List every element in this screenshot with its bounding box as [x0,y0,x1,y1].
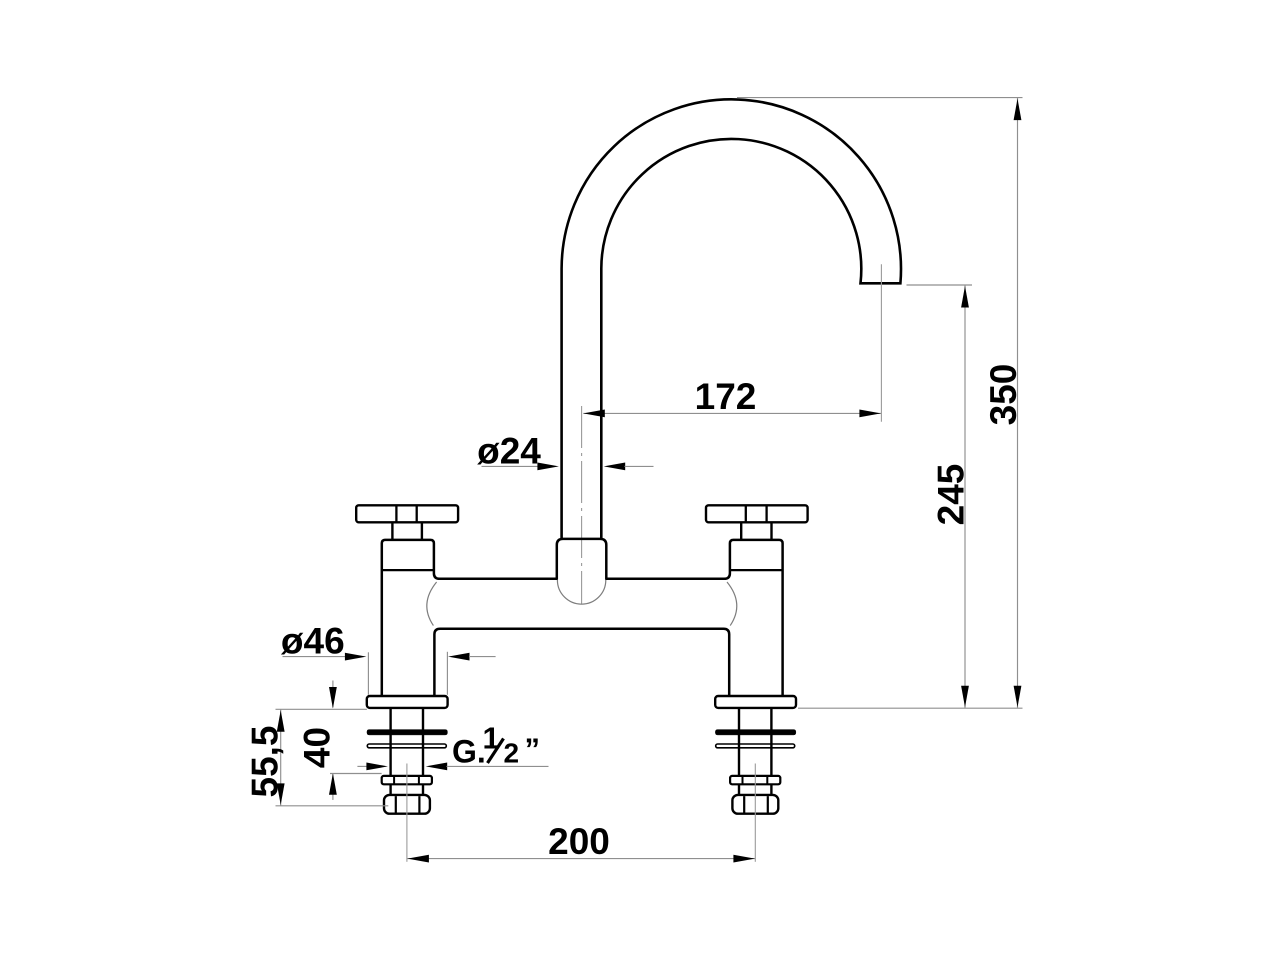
arrow 200 left [407,855,429,863]
arrow 40 top [329,687,337,709]
dimension line 40 lower [332,774,334,800]
right cross handle bar [706,505,808,522]
svg-text:200: 200 [548,821,610,862]
right shank centerline [754,764,756,862]
dimension line 172 [583,412,881,414]
svg-text:350: 350 [983,364,1024,426]
arrow ø46 left [345,653,367,661]
dimension line 245 [964,285,966,708]
left collar facet lines [394,776,419,784]
left valve body [382,540,440,696]
right threaded shank [739,708,771,776]
extension line spout top [737,97,1023,99]
right seal washer (solid) [715,730,795,735]
arrow G.1/2 right [426,763,448,771]
svg-text:ø46: ø46 [281,621,345,662]
arrow G.1/2 left [366,763,388,771]
arrow 350 bottom [1014,686,1022,708]
body tube top-right line [606,578,725,581]
left hex nut facet lines [396,796,420,812]
right lower shank [739,784,771,795]
svg-text:40: 40 [297,727,338,768]
spout gooseneck tube [562,99,901,540]
arrow 245 bottom [961,686,969,708]
arrow 172 left [583,410,605,418]
ø24 leader line [482,465,539,467]
left base flange [367,696,448,708]
right hex nut facet lines [744,796,768,812]
right valve tube fillet arc [727,582,737,626]
left thin washer [367,744,446,748]
right lock collar [730,776,780,784]
dimension line 200 [407,858,755,860]
left threaded shank [391,708,423,776]
dimension line 350 [1017,98,1019,709]
right valve bonnet joint line [730,569,783,571]
G.1/2 right tail line [447,765,549,767]
svg-text:G.: G. [452,734,486,770]
right base flange [715,696,796,708]
55,5 extension line top [276,708,367,710]
G.1/2 leader line [357,765,367,767]
arrow 172 right [859,410,881,418]
arrow ø24 right [604,463,626,471]
spout outlet centerline [880,264,882,422]
body tube bottom line [434,629,729,696]
arrow ø24 left [537,463,559,471]
ø24 right tail line [625,465,654,467]
left cross handle bar [356,505,458,522]
left handle hub lines [396,505,416,522]
arrow 350 top [1014,99,1022,121]
spout pipe centerline (dash-dot) [581,406,583,604]
body tube top-left line [439,578,558,581]
40 extension line bottom [330,773,382,775]
left seal washer (solid) [367,730,447,735]
left valve bonnet joint line [382,569,434,571]
svg-text:2: 2 [504,738,520,769]
ø46 extension line right [446,652,448,695]
arrow 245 top [961,286,969,308]
arrow 40 bottom [329,773,337,795]
svg-text:55,5: 55,5 [244,725,285,797]
dimension line 40 upper [332,681,334,708]
right handle stem [741,522,771,540]
ø46 extension line left [367,652,369,695]
left handle stem [392,522,422,540]
left hex nut [384,795,430,814]
left valve tube fillet arc [427,582,437,626]
svg-text:245: 245 [931,464,972,526]
arrow 200 right [733,855,755,863]
extension line flange bottom right [798,707,1023,709]
right handle hub lines [746,505,767,522]
svg-text:172: 172 [695,376,757,417]
svg-text:ø24: ø24 [477,431,541,472]
dimension line 55,5 [280,709,282,806]
svg-text:”: ” [525,732,541,767]
fraction slash [488,739,504,764]
right thin washer [716,744,795,748]
arrow 55,5 top [277,710,285,732]
55,5 extension line bottom [276,805,389,807]
extension line spout outlet [907,284,973,286]
arrow ø46 right [448,653,470,661]
ø46 leader line [283,656,347,658]
hub dome arc [557,580,605,604]
arrow 55,5 bottom [277,783,285,805]
left shank centerline [406,764,408,862]
center hub socket [557,539,607,580]
ø46 right tail line [469,656,496,658]
left lock collar [382,776,432,784]
right valve body [724,540,782,696]
right collar facet lines [743,776,768,784]
left lower shank [391,784,423,795]
right hex nut [732,795,778,814]
